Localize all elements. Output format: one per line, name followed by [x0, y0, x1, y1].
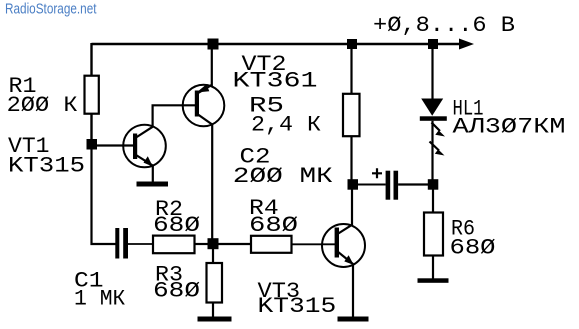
svg-text:1 МК: 1 МК — [74, 287, 125, 312]
wire: HL1 cathode down to node — [431, 121, 433, 181]
transistor VT2 — [183, 84, 225, 126]
node: R2/R3/R4 junction — [208, 238, 219, 249]
wire: +V top rail — [92, 43, 463, 45]
resistor R4 — [251, 236, 292, 253]
svg-text:АЛ3Ø7КМ: АЛ3Ø7КМ — [453, 115, 566, 140]
ground under R3 — [198, 317, 232, 322]
wire: rail to R5 — [350, 45, 352, 94]
wire: C1 to R2 — [128, 243, 153, 245]
wire: node to R4 — [217, 243, 251, 245]
transistor VT3 — [322, 224, 365, 267]
resistor R6 — [424, 213, 443, 256]
wire: rail down to HL1 — [431, 45, 433, 99]
svg-text:RadioStorage.net: RadioStorage.net — [5, 1, 97, 18]
svg-text:68Ø: 68Ø — [153, 279, 200, 304]
ground under R6 — [418, 278, 449, 283]
wire: rail down to R1 — [90, 43, 92, 76]
wire: VT1 emitter down — [152, 166, 154, 182]
ground under VT1 — [137, 182, 169, 187]
wire: base node down and right to C1 — [92, 148, 116, 244]
wire: R6 down to ground — [432, 256, 434, 280]
svg-text:68Ø: 68Ø — [249, 213, 298, 238]
HL1 light arrow 1 — [432, 123, 446, 137]
resistor R5 — [343, 94, 360, 136]
LED HL1 diode triangle — [421, 99, 443, 116]
wire: VT1 collector up — [153, 105, 196, 127]
wire: node down to R6 — [432, 189, 434, 213]
wire: VT2 emitter to rail — [211, 45, 213, 86]
capacitor C1 — [115, 228, 128, 259]
wire: R5 down to node — [350, 136, 352, 181]
wire: R3 down to ground — [212, 303, 214, 318]
node: VT1 base junction — [87, 139, 98, 150]
node: rail/HL1 junction — [428, 39, 438, 49]
node: C2/HL1/R6 junction — [428, 179, 439, 190]
svg-text:KT315: KT315 — [258, 294, 337, 319]
wire: node to C2 left plate — [356, 184, 386, 186]
node: rail/R5 junction — [347, 39, 357, 49]
transistor VT1 — [123, 125, 166, 168]
svg-text:KT361: KT361 — [233, 69, 318, 94]
capacitor C2 plus sign — [372, 168, 382, 178]
wire: base node to VT1 base — [95, 144, 133, 146]
resistor R3 — [207, 263, 223, 303]
LED HL1 cathode bar — [420, 116, 447, 121]
arrowhead on +V rail — [459, 39, 474, 50]
svg-text:+Ø,8...6 В: +Ø,8...6 В — [373, 13, 515, 38]
wire: C2 right plate to HL1/R6 node — [398, 183, 430, 185]
svg-text:2ØØ МК: 2ØØ МК — [233, 164, 333, 189]
wire: R4 to VT3 base — [292, 243, 336, 245]
ground under VT3 — [338, 317, 369, 322]
resistor R1 — [85, 76, 99, 114]
svg-text:2,4 К: 2,4 К — [251, 113, 321, 138]
capacitor C2 — [386, 171, 399, 200]
svg-text:2ØØ К: 2ØØ К — [7, 93, 78, 118]
wire: node down to VT3 collector — [351, 189, 353, 226]
svg-text:KT315: KT315 — [8, 154, 85, 179]
resistor R2 — [153, 236, 195, 254]
node: rail/VT2 emitter junction — [208, 39, 219, 50]
wire: VT3 emitter down — [352, 264, 354, 317]
wire: R2 to node — [195, 243, 210, 245]
wire: node down to R3 — [212, 248, 214, 263]
HL1 light arrow 2 — [430, 142, 445, 156]
wire: R1 to VT1 base node — [90, 114, 92, 142]
node: R5/VT3 collector/C2 junction — [348, 179, 359, 190]
svg-text:68Ø: 68Ø — [153, 213, 200, 238]
wire: VT2 collector down to R2/R3/R4 node — [211, 124, 213, 240]
svg-text:68Ø: 68Ø — [450, 236, 496, 261]
